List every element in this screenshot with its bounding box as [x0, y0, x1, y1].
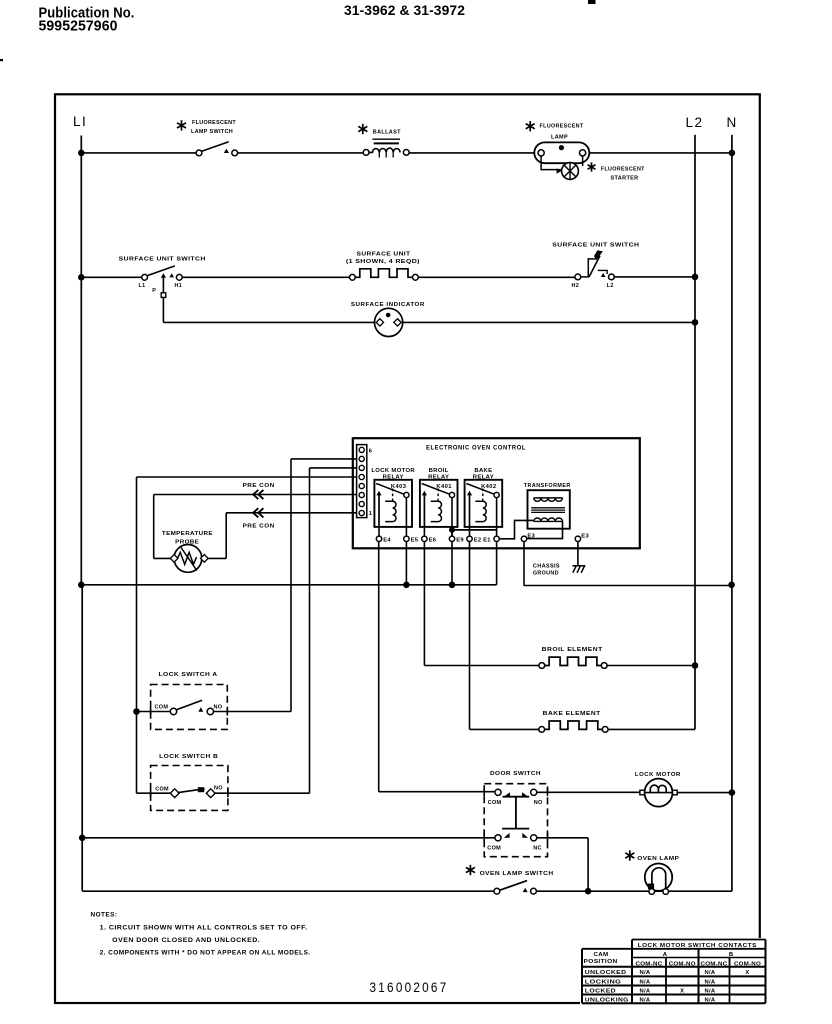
svg-text:LAMP: LAMP — [551, 135, 568, 141]
svg-text:FLUORESCENT: FLUORESCENT — [540, 123, 584, 129]
svg-text:PRE CON: PRE CON — [243, 524, 275, 530]
svg-text:LOCK SWITCH B: LOCK SWITCH B — [159, 754, 218, 760]
svg-text:SURFACE UNIT SWITCH: SURFACE UNIT SWITCH — [119, 256, 206, 262]
svg-text:CHASSIS: CHASSIS — [533, 563, 560, 569]
svg-text:FLUORESCENT: FLUORESCENT — [192, 120, 236, 126]
svg-text:H1: H1 — [175, 283, 183, 289]
svg-text:OVEN LAMP SWITCH: OVEN LAMP SWITCH — [480, 871, 554, 877]
svg-text:SURFACE UNIT SWITCH: SURFACE UNIT SWITCH — [552, 243, 639, 249]
svg-text:PRE CON: PRE CON — [243, 483, 275, 489]
svg-text:LOCK SWITCH A: LOCK SWITCH A — [159, 672, 218, 678]
svg-text:COM-NO: COM-NO — [734, 961, 761, 967]
svg-text:E6: E6 — [429, 537, 437, 543]
svg-text:BALLAST: BALLAST — [373, 130, 401, 136]
svg-text:LOCK MOTOR: LOCK MOTOR — [635, 772, 681, 778]
svg-text:E1: E1 — [483, 537, 491, 543]
svg-text:E4: E4 — [383, 537, 391, 543]
svg-text:COM: COM — [487, 846, 501, 852]
svg-text:TRANSFORMER: TRANSFORMER — [524, 483, 571, 489]
svg-text:N/A: N/A — [640, 970, 651, 976]
svg-text:UNLOCKING: UNLOCKING — [585, 998, 629, 1004]
svg-text:COM: COM — [155, 705, 169, 711]
svg-text:OVEN LAMP: OVEN LAMP — [637, 856, 679, 862]
svg-text:RELAY: RELAY — [428, 475, 449, 481]
svg-text:L1: L1 — [139, 283, 146, 289]
svg-text:NO: NO — [534, 800, 543, 806]
svg-text:SURFACE INDICATOR: SURFACE INDICATOR — [351, 302, 425, 308]
svg-text:GROUND: GROUND — [533, 570, 559, 576]
svg-text:B: B — [729, 952, 733, 958]
svg-text:RELAY: RELAY — [383, 475, 404, 481]
svg-text:L: L — [686, 115, 694, 130]
svg-text:E3: E3 — [581, 533, 589, 539]
svg-text:CAM: CAM — [594, 952, 609, 958]
svg-text:BAKE: BAKE — [474, 468, 492, 474]
svg-text:H2: H2 — [572, 283, 580, 289]
svg-text:NC: NC — [533, 846, 542, 852]
svg-text:6: 6 — [369, 449, 372, 455]
svg-text:NO: NO — [214, 786, 223, 792]
svg-text:ELECTRONIC OVEN CONTROL: ELECTRONIC OVEN CONTROL — [426, 444, 526, 451]
svg-text:1. CIRCUIT SHOWN WITH ALL CONT: 1. CIRCUIT SHOWN WITH ALL CONTROLS SET T… — [100, 926, 308, 932]
svg-text:LOCK MOTOR SWITCH CONTACTS: LOCK MOTOR SWITCH CONTACTS — [638, 943, 757, 949]
svg-text:E5: E5 — [411, 537, 419, 543]
svg-text:COM: COM — [488, 800, 502, 806]
svg-text:LOCKING: LOCKING — [585, 979, 622, 985]
svg-text:N/A: N/A — [705, 998, 716, 1004]
svg-text:SURFACE UNIT: SURFACE UNIT — [357, 252, 411, 258]
svg-text:L2: L2 — [607, 283, 614, 289]
svg-text:I: I — [82, 114, 87, 129]
svg-text:N/A: N/A — [705, 970, 716, 976]
svg-text:TEMPERATURE: TEMPERATURE — [162, 531, 213, 537]
svg-text:COM-NC: COM-NC — [636, 961, 663, 967]
svg-text:31-3962 & 31-3972: 31-3962 & 31-3972 — [344, 3, 465, 19]
svg-text:LAMP SWITCH: LAMP SWITCH — [191, 129, 233, 135]
svg-text:A: A — [663, 952, 668, 958]
svg-text:LOCK MOTOR: LOCK MOTOR — [371, 468, 415, 474]
svg-text:(1 SHOWN, 4 REQD): (1 SHOWN, 4 REQD) — [346, 259, 420, 265]
svg-text:E9: E9 — [456, 537, 464, 543]
svg-text:N: N — [727, 115, 737, 130]
svg-text:L: L — [73, 114, 82, 129]
svg-text:COM-NC: COM-NC — [701, 961, 728, 967]
svg-text:N/A: N/A — [640, 979, 651, 985]
svg-text:PROBE: PROBE — [175, 539, 199, 545]
svg-text:1: 1 — [369, 511, 372, 517]
svg-text:2: 2 — [695, 115, 703, 130]
svg-text:P: P — [152, 288, 156, 294]
svg-text:COM: COM — [155, 786, 169, 792]
svg-text:UNLOCKED: UNLOCKED — [585, 970, 627, 976]
svg-text:N/A: N/A — [640, 998, 651, 1004]
svg-text:BROIL: BROIL — [429, 468, 449, 474]
svg-text:X: X — [680, 989, 684, 995]
svg-text:N/A: N/A — [705, 989, 716, 995]
svg-text:5995257960: 5995257960 — [39, 18, 118, 35]
svg-text:BAKE ELEMENT: BAKE ELEMENT — [543, 711, 601, 717]
svg-text:316002067: 316002067 — [370, 980, 449, 995]
svg-text:RELAY: RELAY — [473, 475, 494, 481]
svg-text:LOCKED: LOCKED — [585, 989, 616, 995]
svg-text:FLUORESCENT: FLUORESCENT — [601, 167, 645, 173]
svg-text:POSITION: POSITION — [584, 959, 618, 965]
svg-text:BROIL ELEMENT: BROIL ELEMENT — [542, 647, 603, 653]
svg-text:E2: E2 — [474, 537, 482, 543]
svg-text:COM-NO: COM-NO — [669, 961, 696, 967]
svg-text:NO: NO — [214, 705, 223, 711]
svg-text:NOTES:: NOTES: — [91, 913, 118, 919]
svg-text:N/A: N/A — [705, 979, 716, 985]
svg-text:DOOR SWITCH: DOOR SWITCH — [490, 771, 541, 777]
svg-text:2. COMPONENTS WITH * DO NOT AP: 2. COMPONENTS WITH * DO NOT APPEAR ON AL… — [100, 951, 311, 957]
svg-text:N/A: N/A — [640, 989, 651, 995]
svg-text:STARTER: STARTER — [611, 176, 639, 182]
svg-text:X: X — [745, 970, 749, 976]
svg-text:OVEN DOOR CLOSED AND UNLOCKED.: OVEN DOOR CLOSED AND UNLOCKED. — [112, 938, 260, 944]
